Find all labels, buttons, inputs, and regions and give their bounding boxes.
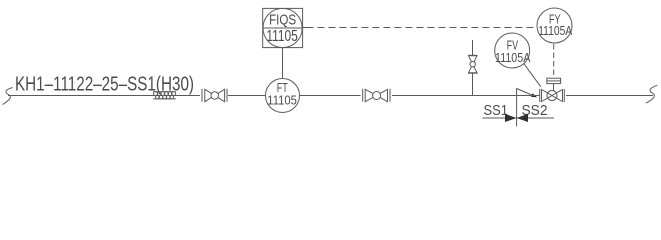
svg-text:SS1: SS1 xyxy=(484,102,509,119)
arrow FV to control valve xyxy=(517,64,541,98)
svg-text:11105A: 11105A xyxy=(495,50,531,65)
wire: main process line left segment xyxy=(8,95,200,97)
signal wire FT to FIQS xyxy=(282,48,284,79)
valve V2 (ball valve with flanges) xyxy=(363,89,390,102)
wire: line between FT and V2 xyxy=(300,95,361,97)
pipe break (right) xyxy=(646,85,657,103)
heat-trace coil xyxy=(153,92,176,99)
flow transmitter FT 11105 xyxy=(266,79,300,113)
svg-text:11105A: 11105A xyxy=(538,23,572,38)
wire: line control valve to right end xyxy=(566,95,653,97)
valve positioner FV 11105A xyxy=(495,33,531,68)
relay FY 11105A xyxy=(537,8,572,43)
svg-text:11105: 11105 xyxy=(266,28,298,45)
valve V1 (ball valve with flanges) xyxy=(202,89,227,102)
wire: line between V1 and FT xyxy=(228,95,266,97)
signal wire (dashed) FY to actuator xyxy=(553,44,555,78)
control valve actuator (piston) xyxy=(547,78,561,90)
control valve FV body xyxy=(540,89,565,102)
pipe break (left) xyxy=(3,88,13,105)
wire: line spec break to control valve xyxy=(517,95,540,97)
wire: line V2 to spec break xyxy=(392,95,516,97)
vent valve (vertical ball valve) xyxy=(468,55,478,73)
svg-text:11105: 11105 xyxy=(267,92,297,107)
svg-text:FIQS: FIQS xyxy=(269,11,296,28)
signal wire (dashed) FIQS to FY xyxy=(303,27,314,29)
spec break SS1/SS2 xyxy=(483,88,555,126)
vent line xyxy=(472,40,474,96)
shared display/computer FIQS 11105 xyxy=(263,8,303,47)
